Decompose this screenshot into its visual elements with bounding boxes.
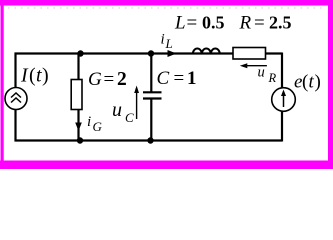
label u_C — [112, 99, 134, 125]
resistor R — [233, 48, 266, 60]
arrow i_G on wire — [75, 123, 82, 132]
wire bottom — [15, 139, 283, 141]
arrow u_C — [134, 86, 139, 120]
svg-text:=: = — [187, 13, 198, 34]
wire right upper — [281, 53, 283, 89]
wire top — [15, 52, 283, 54]
svg-text:2.5: 2.5 — [269, 13, 292, 33]
border inner dotted line — [8, 7, 324, 9]
svg-text:=: = — [104, 69, 115, 90]
svg-text:L: L — [174, 13, 186, 34]
voltage source e(t) — [272, 88, 296, 112]
svg-text:u: u — [112, 99, 122, 121]
svg-text:(: ( — [302, 72, 308, 93]
svg-text:u: u — [258, 65, 265, 81]
wire C branch upper — [150, 54, 152, 93]
arrow i_L on top wire — [168, 50, 177, 57]
svg-text:0.5: 0.5 — [202, 13, 225, 33]
svg-text:G: G — [93, 119, 103, 134]
node B top-middle junction — [148, 50, 154, 56]
arrow u_R — [240, 63, 267, 68]
border frame bottom — [0, 161, 333, 170]
svg-text:C: C — [157, 68, 170, 89]
wire left lower — [14, 110, 16, 142]
border frame top — [0, 0, 333, 6]
node A top-left junction — [77, 50, 83, 56]
svg-text:C: C — [125, 110, 134, 125]
node C bottom-left junction — [77, 137, 83, 143]
label C = 1 — [157, 68, 197, 89]
wire C branch lower — [150, 99, 152, 141]
label L = 0.5 — [174, 13, 225, 34]
node D bottom-middle junction — [147, 137, 153, 143]
svg-text:1: 1 — [187, 68, 197, 89]
svg-text:=: = — [174, 68, 185, 89]
svg-text:=: = — [254, 13, 265, 34]
label R = 2.5 — [239, 13, 292, 34]
svg-text:I: I — [20, 65, 29, 87]
svg-text:i: i — [87, 114, 91, 130]
svg-text:(: ( — [29, 65, 36, 87]
svg-text:L: L — [165, 36, 173, 51]
border frame right — [328, 0, 333, 169]
svg-text:G: G — [88, 69, 102, 90]
svg-text:): ) — [42, 65, 49, 87]
resistor G — [71, 80, 82, 110]
wire G branch lower — [77, 110, 79, 141]
inductor L coil — [193, 49, 220, 55]
wire G branch upper — [77, 54, 79, 80]
svg-text:2: 2 — [117, 69, 127, 90]
label G = 2 — [88, 69, 127, 90]
svg-text:R: R — [239, 13, 252, 34]
wire left upper — [14, 53, 16, 88]
border frame left — [1, 0, 4, 169]
wire right lower — [281, 112, 283, 142]
current source I(t) — [5, 88, 27, 110]
capacitor C plates — [143, 92, 162, 98]
svg-text:): ) — [315, 72, 321, 93]
svg-text:R: R — [268, 71, 277, 85]
svg-text:i: i — [161, 32, 165, 48]
label i_G — [87, 114, 103, 134]
label i_L — [161, 32, 173, 52]
label u_R — [258, 65, 277, 86]
